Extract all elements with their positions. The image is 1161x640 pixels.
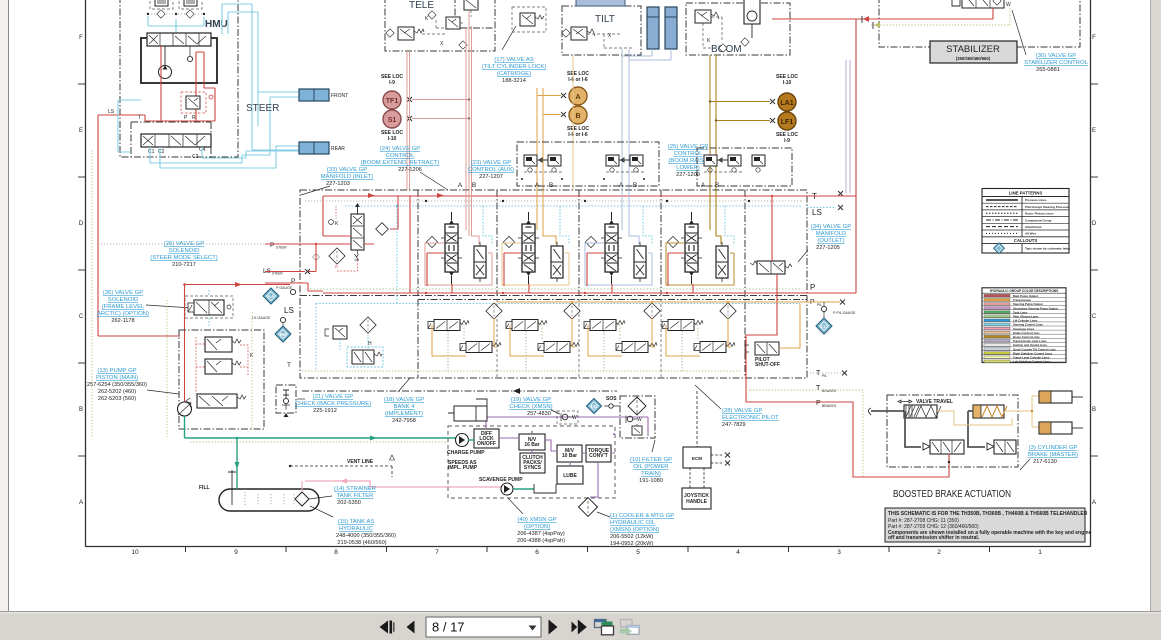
svg-text:ARCTIC) (OPTION): ARCTIC) (OPTION) (97, 311, 149, 317)
svg-text:Attachment: Attachment (1025, 225, 1042, 229)
svg-text:LS: LS (284, 306, 294, 315)
svg-text:P PIL GAUGE: P PIL GAUGE (833, 311, 856, 315)
svg-text:LS: LS (108, 109, 115, 115)
svg-text:LS GAUGE: LS GAUGE (252, 316, 271, 320)
svg-text:LINE PATTERNS: LINE PATTERNS (1009, 191, 1043, 196)
svg-text:H: H (368, 341, 372, 347)
svg-text:8: 8 (334, 549, 338, 556)
svg-text:247-7829: 247-7829 (722, 422, 746, 428)
long vertical supply lines from attachments to manifold (407, 11, 850, 193)
label (33) valve gp manifold inlet (301, 167, 373, 195)
svg-text:CC: CC (821, 324, 828, 329)
bottom toolbar (0, 612, 1161, 640)
svg-text:248-4000 (350/355/360): 248-4000 (350/355/360) (336, 533, 396, 539)
svg-text:BOOSTED BRAKE ACTUATION: BOOSTED BRAKE ACTUATION (893, 489, 1011, 500)
quick-disconnect circles LA1 LF1 (709, 74, 799, 144)
frame level solenoid valve (36) (185, 290, 233, 326)
label (40) xmsn gp option (508, 498, 565, 544)
svg-text:Taps shown by schematic letter: Taps shown by schematic letter (1025, 247, 1071, 251)
svg-text:W: W (572, 415, 577, 421)
main piston pump group (13) (178, 330, 265, 429)
svg-text:HANDLE: HANDLE (686, 499, 707, 505)
svg-text:PISTON (MAIN): PISTON (MAIN) (96, 375, 138, 381)
svg-text:W: W (1006, 2, 1011, 8)
svg-text:A: A (535, 182, 540, 189)
svg-text:B: B (575, 113, 580, 120)
svg-text:MANIFOLD (INLET): MANIFOLD (INLET) (321, 174, 374, 180)
svg-text:TILT: TILT (595, 14, 615, 25)
svg-text:(OUTLET): (OUTLET) (817, 238, 844, 244)
svg-text:3: 3 (837, 549, 841, 556)
check valve (19) on violet line (557, 411, 578, 424)
T brakes olive line (746, 390, 893, 477)
svg-text:HYDRAULIC OIL: HYDRAULIC OIL (610, 520, 656, 526)
svg-text:ECM: ECM (692, 456, 702, 461)
stabilizer control valve (879, 0, 1080, 47)
svg-text:LA1: LA1 (780, 100, 793, 107)
svg-text:R: R (335, 264, 338, 269)
svg-text:5: 5 (636, 549, 640, 556)
svg-text:P: P (291, 278, 295, 285)
svg-text:262-5203 (560): 262-5203 (560) (98, 396, 136, 402)
svg-text:MANIFOLD: MANIFOLD (816, 231, 846, 237)
svg-text:BOOM: BOOM (711, 44, 742, 55)
ECM box (683, 391, 730, 488)
label (14) strainer tank filter (309, 486, 376, 506)
svg-text:A: A (575, 94, 580, 101)
svg-text:P: P (270, 242, 274, 249)
svg-text:SCAVENGE PUMP: SCAVENGE PUMP (479, 477, 523, 483)
svg-text:LS: LS (812, 208, 822, 217)
svg-text:(17) VALVE AS: (17) VALVE AS (494, 57, 533, 63)
wheel brake cylinder 1 (1039, 391, 1083, 403)
svg-text:REAR: REAR (331, 146, 345, 152)
svg-text:(36) VALVE GP: (36) VALVE GP (103, 290, 143, 296)
svg-text:227-1205: 227-1205 (816, 245, 840, 251)
svg-text:PIL: PIL (822, 374, 827, 378)
svg-text:191-1080: 191-1080 (639, 478, 663, 484)
brake master cylinder 2 (968, 405, 1007, 418)
svg-text:CHARGE PUMP: CHARGE PUMP (447, 450, 485, 456)
svg-text:STABILIZER CONTROL: STABILIZER CONTROL (1024, 60, 1088, 66)
oil filter group box (10) (620, 396, 655, 438)
svg-text:(10) FILTER GP: (10) FILTER GP (630, 457, 672, 463)
svg-text:A: A (458, 182, 463, 189)
svg-text:FILL: FILL (199, 485, 210, 491)
svg-text:210-7217: 210-7217 (172, 262, 196, 268)
svg-text:STEER: STEER (246, 103, 279, 114)
svg-text:262-1178: 262-1178 (111, 318, 134, 324)
svg-text:T: T (138, 115, 141, 121)
svg-text:(19) VALVE GP: (19) VALVE GP (511, 397, 551, 403)
svg-text:(XMSN) (OPTION): (XMSN) (OPTION) (610, 527, 659, 533)
svg-text:SHUT-OFF: SHUT-OFF (755, 362, 780, 368)
label (10) filter gp oil power train (630, 440, 672, 484)
svg-text:(15) TANK AS: (15) TANK AS (338, 519, 375, 525)
inlet red supply lines (265, 193, 856, 291)
steer cylinder rear (299, 142, 345, 154)
svg-text:S1: S1 (388, 117, 397, 124)
gray dotted frame rails (302, 200, 802, 371)
steer cylinder front (299, 89, 348, 101)
svg-text:9: 9 (234, 549, 238, 556)
svg-text:CONV'T: CONV'T (589, 453, 608, 459)
svg-text:(350/360/460/560): (350/360/460/560) (956, 56, 991, 61)
label (15) tank as hydraulic (310, 506, 396, 546)
svg-text:P GAUGE: P GAUGE (276, 286, 293, 290)
blue dotted pilot rails (316, 205, 802, 371)
svg-text:(OPTION): (OPTION) (524, 524, 551, 530)
svg-text:1: 1 (1038, 549, 1042, 556)
svg-text:(14) STRAINER: (14) STRAINER (334, 486, 376, 492)
joystick handle box (682, 488, 711, 509)
svg-text:STEER: STEER (276, 246, 287, 250)
manifold left port labels (252, 242, 310, 369)
svg-text:219-0538 (460/560): 219-0538 (460/560) (337, 540, 386, 546)
svg-text:(IMPLEMENT): (IMPLEMENT) (385, 411, 423, 417)
P gauge callout diamond AA (263, 288, 279, 304)
svg-text:T: T (816, 370, 821, 377)
svg-text:B: B (715, 182, 719, 189)
svg-text:I-6 or I-6: I-6 or I-6 (568, 77, 588, 83)
svg-text:I-10: I-10 (388, 136, 397, 142)
svg-text:BRAKES: BRAKES (822, 404, 837, 408)
svg-text:(3) CYLINDER GP: (3) CYLINDER GP (1029, 445, 1078, 451)
svg-text:DD: DD (591, 404, 597, 409)
svg-text:W: W (637, 417, 642, 423)
svg-text:D: D (1092, 221, 1097, 227)
svg-text:I-10: I-10 (783, 80, 792, 86)
svg-text:A: A (79, 500, 83, 506)
svg-text:4: 4 (736, 549, 740, 556)
svg-text:6: 6 (535, 549, 539, 556)
tilt cylinder lock valve (17) (502, 7, 546, 50)
svg-text:STABILIZER: STABILIZER (946, 44, 1000, 55)
svg-text:I-9: I-9 (784, 138, 790, 144)
svg-text:SOS: SOS (606, 396, 617, 402)
svg-text:CONTROL (AUX): CONTROL (AUX) (468, 167, 514, 173)
svg-text:(STEER MODE SELECT): (STEER MODE SELECT) (150, 255, 217, 261)
steer hydraulic lines (cyan) (118, 4, 299, 168)
main valve group 4 (boom raise/lower) (666, 190, 734, 293)
label (18) valve gp bank 4 implement (384, 378, 424, 424)
svg-text:A: A (701, 182, 706, 189)
svg-text:10 Bar: 10 Bar (562, 453, 577, 459)
svg-text:217-6130: 217-6130 (1033, 459, 1057, 465)
svg-text:ON/OFF: ON/OFF (477, 441, 496, 447)
svg-text:TELE: TELE (409, 0, 434, 11)
svg-text:(34) VALVE GP: (34) VALVE GP (811, 224, 851, 230)
TILT valve group (562, 0, 641, 55)
label (26) valve gp solenoid steer mode select (150, 241, 217, 268)
svg-text:I-6 or I-6: I-6 or I-6 (568, 132, 588, 138)
svg-text:CHECK (XMSN): CHECK (XMSN) (509, 404, 552, 410)
svg-text:E: E (79, 128, 83, 134)
svg-text:STEER: STEER (272, 272, 283, 276)
label (1) cooler and mtg gp (610, 513, 674, 547)
svg-text:BB: BB (280, 332, 287, 337)
svg-text:(TILT CYLINDER LOCK): (TILT CYLINDER LOCK) (482, 64, 547, 70)
svg-text:D: D (79, 221, 84, 227)
svg-text:(1) COOLER & MTG GP: (1) COOLER & MTG GP (610, 513, 674, 519)
schematic notes box (885, 508, 1092, 542)
svg-text:C: C (79, 314, 84, 320)
svg-text:B: B (472, 182, 476, 189)
svg-text:E: E (1092, 128, 1096, 134)
label (17) valve as tilt cylinder lock (482, 57, 547, 84)
svg-text:227-1207: 227-1207 (479, 174, 503, 180)
red line right border to brakes (746, 19, 949, 477)
svg-text:(24) VALVE GP: (24) VALVE GP (380, 146, 420, 152)
steering control valve (141, 134, 211, 160)
BOOSTED BRAKE ACTUATION title (893, 489, 1011, 500)
svg-text:206-4387 (4spPay): 206-4387 (4spPay) (517, 531, 565, 537)
transmission group box (40) (447, 426, 615, 498)
A B port labels (458, 182, 719, 189)
svg-text:ELECTRONIC PILOT: ELECTRONIC PILOT (722, 415, 779, 421)
label (36) valve gp solenoid frame level (97, 290, 192, 324)
svg-text:BANK 4: BANK 4 (394, 404, 416, 410)
svg-text:TRAIN): TRAIN) (641, 471, 661, 477)
inlet pilot valves lower (325, 317, 383, 367)
svg-text:(30) VALVE GP: (30) VALVE GP (1036, 53, 1076, 59)
label (24) valve gp control boom extend retract (361, 146, 448, 190)
LS gauge callout diamond BB (275, 323, 291, 342)
label (23) valve gp control aux (468, 160, 514, 180)
pilot control solenoid box 2 (697, 148, 792, 186)
svg-text:Pilot Except Steering Pressure: Pilot Except Steering Pressure (1025, 205, 1069, 209)
svg-text:Drain / Return Lines: Drain / Return Lines (1025, 212, 1054, 216)
svg-text:(BOOM RAISE: (BOOM RAISE (668, 158, 707, 164)
label (30) valve gp stabilizer control (1012, 10, 1089, 73)
svg-text:CALLOUTS: CALLOUTS (1014, 238, 1038, 243)
label (13) pump gp piston main (87, 368, 179, 402)
svg-text:B: B (633, 182, 637, 189)
quick-disconnect circles A B (537, 71, 589, 138)
HMU steering unit group (120, 0, 238, 157)
svg-text:188-3214: 188-3214 (502, 78, 526, 84)
tilt cylinders (647, 7, 677, 49)
cooler diamond (1) (579, 498, 610, 517)
svg-text:Component Group: Component Group (1025, 218, 1052, 222)
label (19) valve gp check xmsn (509, 397, 560, 417)
svg-text:227-1209: 227-1209 (676, 172, 700, 178)
svg-text:10: 10 (131, 549, 139, 556)
svg-text:AA: AA (268, 294, 275, 299)
svg-text:LF1: LF1 (781, 119, 794, 126)
brake valve 2 (968, 411, 1016, 454)
svg-text:(40) XMSN GP: (40) XMSN GP (517, 517, 556, 523)
svg-text:206-4388 (4spPah): 206-4388 (4spPah) (517, 538, 565, 544)
main valve group 2 (aux) (502, 190, 569, 293)
label (3) cylinder gp brake master (1020, 445, 1078, 470)
svg-text:C1: C1 (148, 149, 155, 155)
TELE valve group (385, 0, 495, 51)
main valve group 3 (tilt) (585, 190, 652, 293)
svg-text:All Wire: All Wire (1025, 232, 1036, 236)
svg-text:HMU: HMU (205, 19, 228, 30)
svg-text:(28) VALVE GP: (28) VALVE GP (722, 408, 762, 414)
svg-text:I-9: I-9 (389, 80, 395, 86)
page border frame (78, 0, 1098, 556)
svg-text:LOWER): LOWER) (676, 165, 700, 171)
svg-text:194-0952 (20kW): 194-0952 (20kW) (610, 541, 653, 547)
hydraulic tank (199, 470, 319, 511)
svg-text:B: B (79, 407, 83, 413)
label (25) valve gp control boom raise lower (668, 144, 708, 178)
dotted utility lines left (92, 150, 265, 437)
stabilizer red supply line (772, 8, 1010, 29)
svg-text:C2: C2 (158, 149, 165, 155)
quick-disconnect circles TF1 S1 (381, 74, 470, 142)
svg-text:206-5502 (12kW): 206-5502 (12kW) (610, 534, 653, 540)
svg-text:225-1912: 225-1912 (313, 408, 337, 414)
brake master cylinder 1 (869, 405, 942, 418)
svg-text:OIL (POWER: OIL (POWER (633, 464, 668, 470)
svg-text:Left Stabilizer Control Lines: Left Stabilizer Control Lines (1013, 360, 1051, 364)
svg-text:202-5350: 202-5350 (337, 500, 361, 506)
pilot control solenoid box 1 (517, 142, 659, 186)
svg-text:LUBE: LUBE (563, 473, 577, 479)
svg-text:off and transmission shifter i: off and transmission shifter in neutral. (888, 535, 980, 541)
manifold port labels right side (807, 191, 847, 408)
svg-text:F: F (1092, 35, 1096, 41)
svg-text:P: P (810, 283, 815, 292)
main control manifold box (300, 190, 807, 394)
brake tan lines to wheel cylinders (937, 396, 1039, 427)
svg-text:242-7958: 242-7958 (392, 418, 416, 424)
svg-text:16 Bar: 16 Bar (524, 442, 539, 448)
svg-text:C3: C3 (192, 154, 199, 160)
pilot valve pair 1 (428, 302, 502, 371)
P PIL gauge and callout CC (816, 302, 856, 334)
svg-text:TANK FILTER: TANK FILTER (337, 493, 374, 499)
svg-text:265-0881: 265-0881 (1036, 67, 1060, 73)
svg-text:CONTROL: CONTROL (386, 153, 416, 159)
boosted brake actuation box (887, 395, 1018, 467)
svg-text:C: C (1092, 314, 1097, 320)
svg-text:7: 7 (435, 549, 439, 556)
line patterns legend (982, 189, 1071, 254)
inlet section spool valve (313, 203, 389, 269)
svg-text:PIL: PIL (817, 303, 822, 307)
red supply from pump to manifold (98, 282, 296, 402)
main valve group 1 (boom extend/retract) (425, 190, 492, 293)
STABILIZER title box (930, 41, 1017, 63)
green return lines (185, 416, 458, 489)
xmsn internal violet lines (468, 417, 648, 497)
SOS sampling valve DD (586, 396, 620, 414)
brake valve 1 (905, 411, 964, 463)
svg-text:257-4830: 257-4830 (527, 411, 551, 417)
P PIL orange rail (497, 301, 840, 303)
pilot valve pair 4 (662, 302, 736, 371)
svg-text:HYDRAULIC GROUP COLOR DESCRIPT: HYDRAULIC GROUP COLOR DESCRIPTIONS (990, 289, 1058, 293)
svg-text:IMPL. PUMP: IMPL. PUMP (448, 465, 478, 471)
wheel brake cylinder 2 (1039, 422, 1083, 434)
svg-text:A: A (1092, 500, 1096, 506)
svg-text:A: A (619, 182, 624, 189)
pilot valve pair 3 (584, 302, 660, 371)
pilot valve pair 2 (506, 302, 580, 371)
label (28) valve gp electronic pilot (695, 385, 779, 428)
svg-text:(21) VALVE GP: (21) VALVE GP (313, 394, 353, 400)
svg-text:THIS SCHEMATIC IS FOR THE TH35: THIS SCHEMATIC IS FOR THE TH350B, TH360B… (888, 511, 1088, 517)
svg-text:2: 2 (937, 549, 941, 556)
svg-text:(33) VALVE GP: (33) VALVE GP (327, 167, 367, 173)
svg-text:TF1: TF1 (386, 98, 399, 105)
svg-text:SOLENOID: SOLENOID (169, 248, 199, 254)
svg-text:R: R (192, 115, 196, 121)
svg-text:Pressure Lines: Pressure Lines (1025, 198, 1047, 202)
svg-text:(23) VALVE GP: (23) VALVE GP (471, 160, 511, 166)
svg-text:FRONT: FRONT (331, 93, 348, 99)
outlet section spool (34) (746, 195, 792, 402)
svg-text:SOLENOID: SOLENOID (108, 297, 138, 303)
pink scavenge line (305, 479, 501, 488)
implement pump cylinder symbol (448, 399, 487, 421)
svg-text:B: B (1092, 407, 1096, 413)
svg-text:F: F (79, 35, 83, 41)
svg-text:(BOOM EXTEND, RETRACT): (BOOM EXTEND, RETRACT) (361, 160, 440, 166)
svg-text:B: B (549, 182, 553, 189)
svg-text:(CATRIDGE): (CATRIDGE) (497, 71, 531, 77)
svg-text:HYDRAULIC: HYDRAULIC (339, 526, 374, 532)
svg-text:T: T (287, 362, 291, 369)
svg-text:SYNCS: SYNCS (524, 465, 542, 471)
label (21) valve gp check back pressure (276, 385, 371, 417)
svg-text:(FRAME LEVEL: (FRAME LEVEL (102, 304, 145, 310)
hydraulic group color legend (982, 288, 1066, 364)
svg-text:227-1206: 227-1206 (398, 167, 422, 173)
HMU red pilot lines (98, 46, 215, 336)
svg-text:P: P (816, 400, 821, 407)
svg-text:8 / 17: 8 / 17 (432, 620, 465, 635)
label (34) valve gp manifold outlet (798, 224, 851, 262)
svg-text:CONTROL: CONTROL (674, 151, 704, 157)
vent line (289, 455, 395, 477)
red pressure rail bottom (323, 196, 856, 294)
svg-text:257-6254 (350/355/360): 257-6254 (350/355/360) (87, 382, 147, 388)
svg-text:262-5202 (460): 262-5202 (460) (98, 389, 136, 395)
svg-text:(18) VALVE GP: (18) VALVE GP (384, 397, 424, 403)
svg-text:T: T (816, 385, 821, 392)
pilot shutoff valve (745, 304, 800, 368)
svg-text:CHECK (BACK PRESSURE): CHECK (BACK PRESSURE) (295, 401, 371, 407)
BOOM valve group (686, 0, 790, 55)
svg-text:VALVE TRAVEL: VALVE TRAVEL (916, 399, 953, 405)
svg-text:(13) PUMP GP: (13) PUMP GP (97, 368, 136, 374)
svg-text:(25) VALVE GP: (25) VALVE GP (668, 144, 708, 150)
svg-text:BRAKE (MASTER): BRAKE (MASTER) (1028, 452, 1078, 458)
svg-text:VENT LINE: VENT LINE (347, 459, 374, 465)
